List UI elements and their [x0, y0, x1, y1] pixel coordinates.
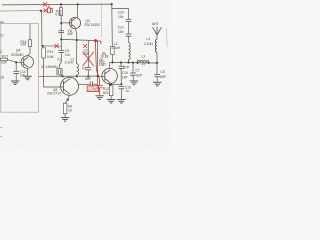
wire y46 to oscillator column: [43, 39, 62, 46]
svg-text:4T: 4T: [142, 63, 146, 67]
svg-text:1.3uH: 1.3uH: [111, 46, 120, 50]
red node on y40: [94, 39, 97, 42]
svg-text:C12: C12: [118, 25, 124, 29]
node R13 top junction: [42, 45, 44, 47]
svg-text:Q4: Q4: [16, 49, 21, 53]
inductor L2: [129, 43, 131, 63]
inductor L4 antenna choke: [155, 35, 157, 63]
wire top supply rail: [2, 3, 113, 6]
ground C16: [117, 100, 125, 104]
svg-text:22K: 22K: [1, 61, 8, 65]
resistor R4: [63, 103, 67, 117]
capacitor C10: [126, 19, 132, 33]
node top rail x61: [60, 3, 62, 5]
resistor R5: [111, 47, 115, 63]
wire Q5 output: [78, 83, 90, 85]
resistor R12: [109, 86, 113, 99]
faint crease line: [100, 2, 102, 37]
red box around 220p: [87, 86, 99, 92]
svg-text:68P: 68P: [85, 77, 92, 81]
inductor L1: [77, 40, 79, 76]
wire Q3 collector: [77, 4, 79, 17]
svg-text:27.145MHz: 27.145MHz: [41, 65, 58, 69]
resistor R16: [28, 24, 32, 56]
node top rail x77.6: [77, 3, 79, 5]
red X mark on y46 wire: [54, 44, 58, 48]
node R12 top: [110, 83, 112, 85]
node Q6 emitter: [109, 83, 111, 85]
svg-text:1n: 1n: [125, 89, 129, 93]
svg-text:R17: R17: [2, 55, 8, 59]
inductor L3: [137, 60, 149, 62]
node rail x111.5: [111, 61, 113, 63]
wire feed column to R13: [41, 11, 43, 46]
module box enclosure: [1, 24, 39, 113]
node Q3 base junction: [60, 22, 62, 24]
antenna symbol: [153, 27, 162, 35]
node rail x76.7: [76, 75, 78, 77]
svg-text:2.2uH: 2.2uH: [65, 61, 74, 65]
red X small annotation: [83, 44, 87, 48]
node y40 x61.3: [60, 38, 62, 40]
wire Q5 emitter: [65, 95, 69, 103]
svg-text:2.2uH: 2.2uH: [144, 42, 153, 46]
ground C6: [153, 82, 161, 86]
ground R12: [107, 100, 115, 104]
wire Q6 emitter: [110, 83, 122, 86]
svg-text:C6: C6: [160, 70, 164, 74]
svg-text:R13: R13: [47, 50, 53, 54]
svg-text:820: 820: [103, 91, 109, 95]
node L3 left: [137, 62, 139, 64]
wire R5 column: [111, 4, 114, 46]
transistor Q4: [21, 56, 33, 68]
ground C7: [130, 81, 138, 85]
wire Q3 emitter: [75, 29, 77, 40]
red connector box annotation: [47, 5, 50, 13]
wire Q5 base line: [44, 86, 64, 88]
transistor Q6: [102, 68, 117, 83]
capacitor C7: [130, 63, 136, 81]
ground Q4 emitter: [23, 76, 31, 80]
crystal X1: [57, 69, 63, 77]
node second rail: [40, 10, 42, 12]
node rail x128.5: [127, 61, 129, 63]
node rail x157: [156, 62, 158, 64]
svg-text:2SC1815C: 2SC1815C: [84, 23, 101, 27]
svg-text:1947: 1947: [99, 63, 107, 67]
svg-text:10n: 10n: [20, 73, 26, 77]
wire Q6 collector: [109, 62, 111, 68]
svg-text:C3: C3: [82, 66, 86, 70]
capacitor C16: [119, 87, 125, 100]
svg-text:C7: C7: [135, 68, 139, 72]
svg-text:82P: 82P: [136, 73, 143, 77]
stray mark bottom left 2: [0, 136, 2, 138]
capacitor C8: [58, 23, 64, 39]
svg-text:B+: B+: [0, 21, 4, 25]
node base column rail junction: [97, 75, 99, 77]
node rail x62.7: [62, 75, 64, 77]
faint edge line: [166, 28, 169, 47]
wire decoupling branch: [112, 9, 129, 20]
wire collector rail y76.3: [38, 75, 97, 77]
node Q4 base: [15, 61, 17, 63]
red jumper wire: [95, 41, 101, 85]
wire output rail: [110, 61, 158, 64]
svg-text:220p: 220p: [88, 87, 98, 92]
svg-text:10n: 10n: [118, 30, 124, 34]
wire oscillator line y40: [61, 39, 97, 40]
svg-text:47P: 47P: [123, 66, 130, 70]
wire second rail: [0, 9, 46, 12]
resistor R18: [59, 4, 62, 23]
capacitor C4 coupling: [90, 81, 97, 86]
capacitor C9: [58, 46, 64, 68]
ground R4: [61, 118, 69, 122]
node y40 x76.8: [76, 39, 78, 41]
svg-text:60P: 60P: [160, 75, 167, 79]
red X mark on second rail: [44, 8, 48, 12]
ground red cap: [95, 96, 103, 100]
capacitor C3: [86, 40, 92, 76]
svg-text:BC546C: BC546C: [11, 53, 24, 57]
transistor Q5: [61, 76, 79, 95]
svg-text:L3: L3: [141, 54, 145, 58]
node rail x148.6: [148, 62, 150, 64]
capacitor C5 47P: [119, 63, 125, 85]
svg-text:10n: 10n: [118, 15, 124, 19]
node rail x133: [132, 62, 134, 64]
svg-text:L4: L4: [146, 37, 150, 41]
svg-text:18P: 18P: [122, 75, 129, 79]
stray mark bottom left 1: [0, 127, 3, 129]
resistor R17: [1, 58, 24, 62]
capacitor C14: [13, 62, 19, 80]
svg-text:4.7K: 4.7K: [55, 13, 63, 17]
svg-text:X1: X1: [57, 57, 61, 61]
red X mark on top rail: [43, 2, 47, 6]
connector bracket: [51, 8, 52, 13]
svg-text:2SC1714: 2SC1714: [47, 92, 61, 96]
ground C14: [11, 81, 19, 85]
wire Q6 base column: [98, 41, 105, 85]
svg-text:ANT: ANT: [152, 22, 159, 26]
resistor R13: [42, 48, 46, 87]
node top rail x111.5: [111, 3, 113, 5]
red X big annotation: [83, 52, 94, 67]
red capacitor 220p annotation: [96, 85, 102, 95]
transistor Q3: [61, 17, 80, 28]
capacitor C6: [154, 63, 160, 82]
node rail x88.3: [87, 75, 89, 77]
svg-text:5.6K: 5.6K: [47, 55, 55, 59]
svg-text:45P: 45P: [67, 32, 74, 36]
node C5 top: [120, 61, 122, 63]
svg-text:10K: 10K: [20, 43, 27, 47]
node C16 top: [120, 83, 122, 85]
node Q5 emitter: [67, 99, 69, 101]
wire Q4 emitter: [26, 68, 28, 76]
capacitor C12: [126, 34, 132, 43]
